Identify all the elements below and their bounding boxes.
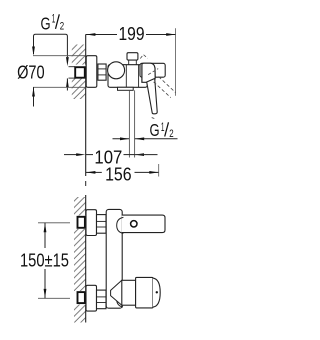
- upper supply cutout: [70, 216, 86, 230]
- dim 150+-15 lower extension line: [38, 297, 74, 299]
- svg-text:1: 1: [52, 12, 56, 26]
- dim 107 left arrow (outside, pointing right): [64, 154, 79, 156]
- dim O70 top extension line: [33, 55, 86, 57]
- supply pipe cutout (white in hatch): [69, 65, 86, 79]
- svg-text:2: 2: [60, 20, 64, 32]
- dim 107 right arrow (outside, pointing left): [135, 153, 144, 156]
- lever pivot cap (top view): [142, 63, 155, 82]
- ball housing arc upper: [117, 217, 124, 233]
- shower outlet line left: [128, 90, 130, 157]
- dim 150+-15 line: [44, 223, 46, 248]
- svg-text:150±15: 150±15: [20, 249, 69, 270]
- port connector lines: [128, 60, 130, 65]
- knob marker dot: [156, 291, 158, 293]
- lever end knob (top view): [140, 63, 165, 77]
- union nut (top view): [98, 64, 106, 80]
- mixer column (bottom view): [106, 209, 122, 308]
- dim 199 extension line: [175, 28, 177, 96]
- shower outlet line right: [134, 90, 136, 157]
- svg-text:1: 1: [161, 120, 165, 134]
- svg-text:G: G: [41, 13, 51, 33]
- wall hatch (bottom view): [74, 197, 86, 323]
- supply pipe stub lines: [69, 66, 76, 68]
- dim O70 bottom extension line: [33, 86, 86, 88]
- knob dome end: [153, 278, 160, 307]
- G1/2 arrow (down, at pipe top): [66, 57, 69, 66]
- svg-text:199: 199: [119, 23, 145, 44]
- phantom lever dashes (alternate position): [140, 55, 147, 59]
- ball housing arc lower: [117, 291, 124, 308]
- knob cone (bottom view): [111, 280, 122, 305]
- G1/2 outlet leader underline with arrow: [135, 138, 178, 140]
- upper supply square: [78, 217, 85, 228]
- lever arm hole: [131, 221, 137, 227]
- body internal line 2: [138, 65, 140, 88]
- svg-text:Ø70: Ø70: [17, 61, 45, 82]
- lever grip (top view): [147, 79, 158, 114]
- G1/2 bracket: [34, 34, 68, 57]
- lower union nut (bottom view): [97, 290, 107, 309]
- G1/2 arrow (up, at pipe bottom) with shaft: [66, 78, 68, 90]
- supply pipe square (G1/2 connection): [75, 67, 85, 78]
- dim 107 line: [86, 154, 93, 156]
- phantom dash below grip tip: [152, 117, 155, 120]
- wall line tick between views: [85, 181, 87, 186]
- ball joint (top view): [108, 62, 125, 79]
- knob inner cylinder: [122, 280, 136, 305]
- escutcheon (top view): [86, 56, 97, 88]
- svg-text:156: 156: [105, 163, 132, 184]
- wall face line (bottom view): [85, 195, 87, 323]
- dim O70 top arrow (down): [32, 47, 35, 56]
- wall hatch (top view): [72, 45, 86, 100]
- upper escutcheon (bottom view): [86, 210, 97, 236]
- knob grip cylinder: [136, 277, 153, 308]
- dim O70 bottom arrow (up) with shaft: [33, 87, 35, 106]
- dim 156 line: [86, 171, 102, 173]
- G1/2 outlet opposite arrow: [113, 138, 130, 140]
- wall face line (top view): [85, 34, 87, 176]
- dim 199 line right segment: [146, 34, 176, 36]
- dim 150+-15 upper extension line: [38, 222, 74, 224]
- top port cap: [127, 53, 138, 60]
- mixer body block (top view): [108, 65, 147, 88]
- lower supply square: [78, 292, 85, 303]
- body internal line 1: [125, 65, 127, 88]
- dim 199 line left segment: [86, 34, 117, 36]
- lower supply cutout: [70, 291, 86, 305]
- outlet boss under body: [118, 87, 134, 90]
- dim 156 extension line: [158, 164, 160, 177]
- upper union nut (bottom view): [97, 215, 107, 234]
- lever arm (bottom view): [122, 215, 165, 233]
- lower escutcheon (bottom view): [86, 285, 97, 311]
- dim 199 right arrow: [166, 33, 175, 36]
- svg-text:G: G: [150, 120, 160, 140]
- dim 199 left arrow: [86, 33, 95, 36]
